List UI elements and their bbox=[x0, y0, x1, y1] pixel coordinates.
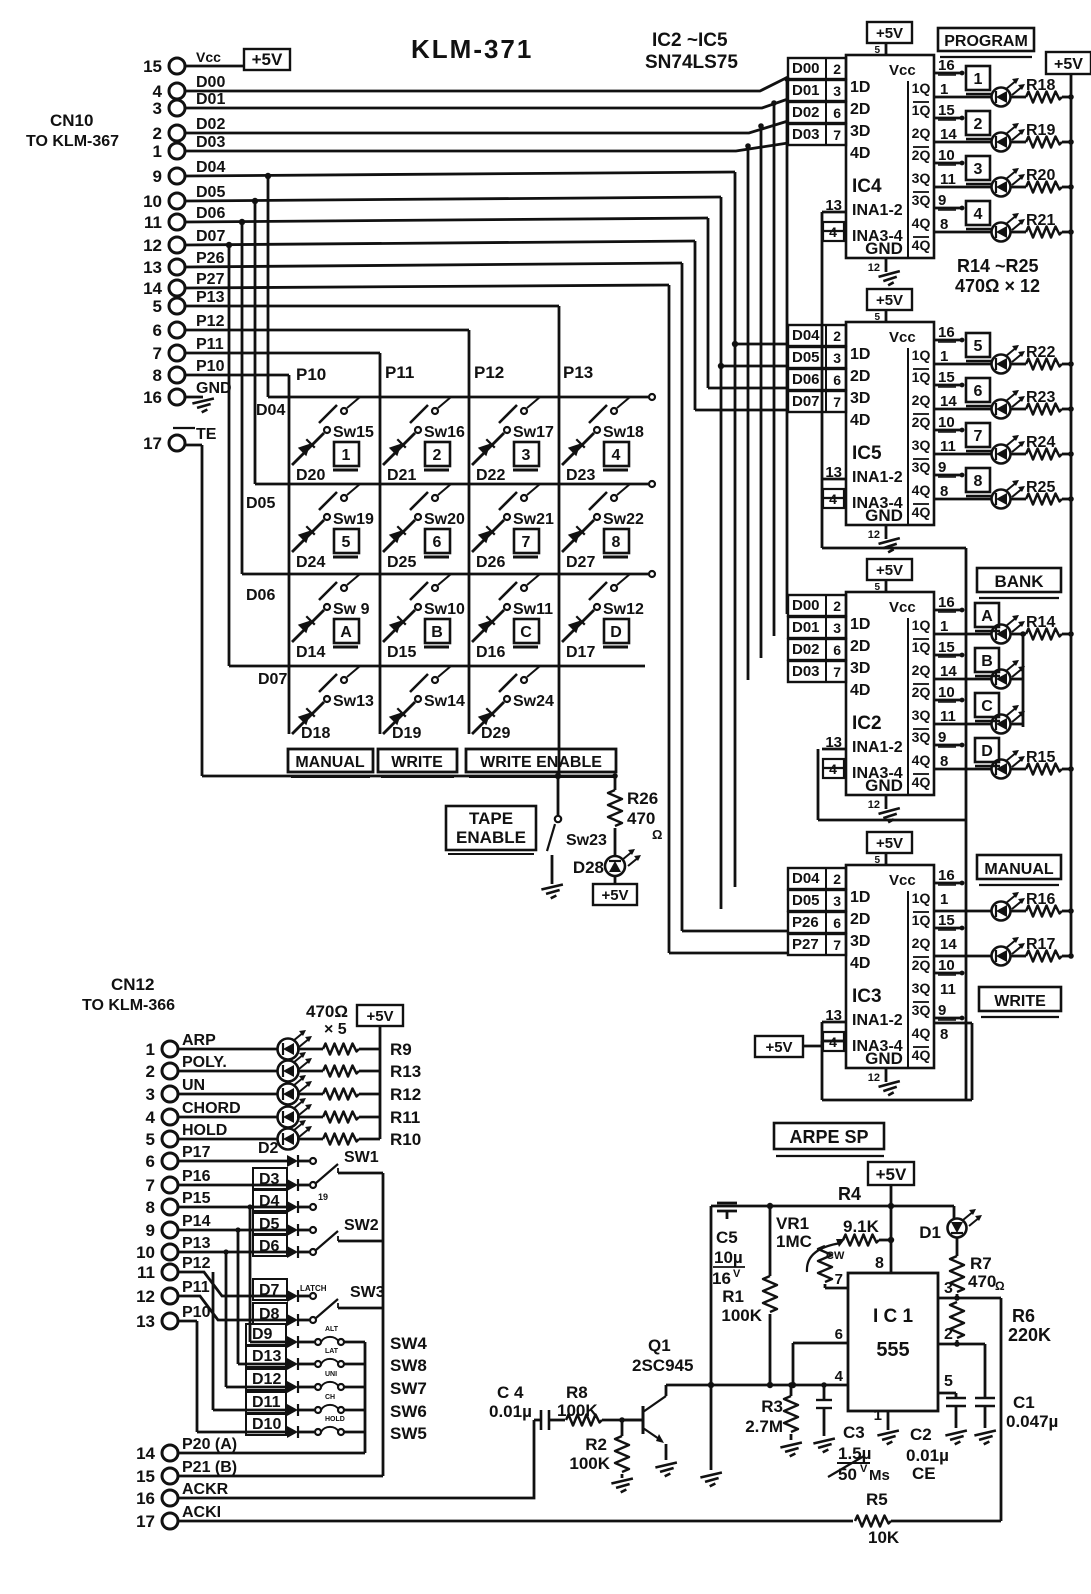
label SW23 bbox=[566, 832, 607, 849]
label R11 bbox=[390, 1108, 420, 1127]
svg-text:3Q: 3Q bbox=[912, 459, 931, 475]
pin 4 row bbox=[666, 1368, 848, 1388]
svg-text:Sw11: Sw11 bbox=[513, 601, 553, 618]
diode D9 bbox=[246, 1324, 314, 1348]
latch IC3 pin 10 stub bbox=[934, 957, 964, 975]
wire P12 bbox=[185, 330, 469, 734]
svg-text:1: 1 bbox=[940, 891, 948, 908]
latch IC5 pin 16 stub bbox=[934, 324, 964, 342]
latch IC5 output labels bbox=[912, 347, 931, 520]
svg-text:3D: 3D bbox=[850, 933, 870, 950]
CN10 pin 4 (D00) bbox=[153, 74, 226, 101]
svg-text:D11: D11 bbox=[252, 1394, 281, 1411]
svg-text:UN: UN bbox=[182, 1077, 205, 1094]
switch label Sw14 bbox=[424, 693, 465, 710]
svg-text:2.7M: 2.7M bbox=[745, 1417, 783, 1436]
svg-text:6: 6 bbox=[153, 321, 162, 340]
latch IC3 pin 11 label bbox=[940, 981, 956, 998]
svg-text:Sw10: Sw10 bbox=[424, 601, 465, 618]
svg-text:15: 15 bbox=[938, 639, 955, 656]
svg-text:7: 7 bbox=[974, 428, 983, 445]
key cap label D bbox=[603, 619, 629, 647]
svg-text:1D: 1D bbox=[850, 889, 870, 906]
svg-text:ALT: ALT bbox=[325, 1326, 339, 1333]
svg-text:4Q: 4Q bbox=[912, 1025, 931, 1041]
svg-text:P11: P11 bbox=[196, 336, 224, 353]
svg-text:10: 10 bbox=[938, 147, 955, 164]
svg-text:1: 1 bbox=[940, 348, 948, 365]
pin 7 row bbox=[835, 1271, 843, 1288]
+5V box (top right) bbox=[1046, 52, 1091, 74]
transistor Q1 bbox=[620, 1396, 666, 1460]
wire D01 bbox=[185, 99, 788, 636]
svg-text:D06: D06 bbox=[792, 371, 820, 388]
svg-text:D06: D06 bbox=[196, 205, 225, 222]
capacitor C1 bbox=[975, 1344, 995, 1428]
svg-text:2: 2 bbox=[833, 598, 841, 614]
svg-text:+5V: +5V bbox=[765, 1039, 792, 1056]
latch IC2 pin 11 label bbox=[940, 708, 956, 725]
label MANUAL (LED) bbox=[977, 855, 1061, 885]
svg-text:INA1-2: INA1-2 bbox=[852, 739, 903, 756]
svg-text:BANK: BANK bbox=[994, 572, 1044, 591]
svg-text:1: 1 bbox=[940, 81, 948, 98]
svg-text:P10: P10 bbox=[296, 365, 326, 384]
svg-text:B: B bbox=[431, 624, 443, 641]
svg-text:WRITE ENABLE: WRITE ENABLE bbox=[480, 754, 602, 771]
diode label D20 bbox=[296, 467, 325, 484]
svg-text:8: 8 bbox=[940, 216, 948, 233]
key cap label B bbox=[424, 619, 450, 647]
CN12 pin 13 (P10) bbox=[136, 1304, 210, 1331]
latch IC3 pin 8 label bbox=[940, 1026, 948, 1043]
latch IC3 pin 9 stub bbox=[934, 1002, 964, 1020]
label R21 bbox=[1026, 212, 1055, 229]
label BANK bbox=[977, 568, 1061, 598]
ground (Q1 emitter) bbox=[655, 1462, 678, 1477]
resistor R20 bbox=[1011, 182, 1074, 193]
svg-text:1Q: 1Q bbox=[912, 347, 931, 363]
label WRITE (matrix) bbox=[378, 749, 457, 777]
LED PROGRAM 3 bbox=[992, 168, 1026, 197]
svg-text:D10: D10 bbox=[252, 1416, 281, 1433]
key cap label 1 bbox=[333, 442, 359, 470]
svg-text:12: 12 bbox=[868, 262, 880, 274]
svg-text:D3: D3 bbox=[259, 1171, 280, 1188]
svg-text:R24: R24 bbox=[1026, 434, 1055, 451]
LED POLY. bbox=[278, 1052, 313, 1082]
svg-text:2: 2 bbox=[433, 447, 442, 464]
latch IC5 pin 9 stub bbox=[934, 459, 964, 477]
svg-text:P12: P12 bbox=[474, 363, 504, 382]
LED MANUAL bbox=[992, 892, 1026, 921]
svg-text:P20 (A): P20 (A) bbox=[182, 1436, 237, 1453]
svg-text:HOLD: HOLD bbox=[325, 1416, 345, 1423]
latch IC3 output labels bbox=[912, 890, 931, 1063]
svg-text:R21: R21 bbox=[1026, 212, 1055, 229]
wire PROGRAM 3 row bbox=[934, 186, 991, 189]
svg-text:R4: R4 bbox=[838, 1184, 861, 1204]
ground (R3) bbox=[780, 1442, 803, 1457]
svg-text:LATCH: LATCH bbox=[300, 1284, 327, 1293]
label Q1 2SC945 bbox=[632, 1336, 693, 1375]
+5V box (IC4) bbox=[867, 22, 912, 56]
label C5 10u 16V bbox=[712, 1228, 745, 1288]
wire P10 bbox=[185, 375, 289, 734]
svg-text:1: 1 bbox=[974, 71, 983, 88]
svg-text:3Q: 3Q bbox=[912, 192, 931, 208]
label WRITE (LED) bbox=[979, 987, 1061, 1017]
latch IC5 pin 13 INA1-2 bbox=[822, 464, 846, 481]
switch label Sw17 bbox=[513, 424, 554, 441]
label SW7 bbox=[390, 1379, 427, 1398]
label R2 100K bbox=[569, 1435, 610, 1473]
svg-text:100K: 100K bbox=[569, 1454, 610, 1473]
wire P27 bbox=[185, 285, 788, 953]
svg-text:D07: D07 bbox=[258, 671, 287, 688]
svg-text:1Q: 1Q bbox=[912, 639, 931, 655]
svg-text:10: 10 bbox=[938, 957, 955, 974]
latch IC2 pin 8 label bbox=[940, 753, 948, 770]
latch IC3 pin 1 label bbox=[940, 891, 948, 908]
wire P11 row bbox=[178, 1296, 287, 1320]
diode D6 bbox=[253, 1235, 309, 1258]
LED D1 bbox=[948, 1206, 983, 1238]
svg-text:1: 1 bbox=[342, 447, 351, 464]
wire Vcc to +5V bbox=[185, 65, 244, 68]
svg-text:R14: R14 bbox=[1026, 614, 1055, 631]
switch SW7 bbox=[315, 1371, 365, 1390]
ground (CN10 pin16) bbox=[192, 398, 215, 413]
svg-text:3: 3 bbox=[974, 161, 983, 178]
latch IC5 pin 8 label bbox=[940, 483, 948, 500]
label MANUAL (matrix) bbox=[288, 749, 373, 777]
svg-text:16: 16 bbox=[938, 57, 955, 74]
CN10 pin 12 (D07) bbox=[143, 228, 225, 255]
svg-text:2Q: 2Q bbox=[912, 392, 931, 408]
matrix row line D04 bbox=[268, 394, 655, 400]
wire IC2 enable loop bbox=[818, 749, 966, 820]
svg-text:3: 3 bbox=[153, 99, 162, 118]
svg-text:8: 8 bbox=[940, 1026, 948, 1043]
svg-text:D: D bbox=[981, 743, 993, 760]
svg-text:3Q: 3Q bbox=[912, 170, 931, 186]
svg-text:1Q: 1Q bbox=[912, 617, 931, 633]
latch IC2 body bbox=[846, 592, 934, 795]
capacitor C5 bbox=[717, 1203, 737, 1219]
svg-text:A: A bbox=[340, 624, 352, 641]
wire D13 branch bbox=[238, 1230, 287, 1364]
CN10 pin 16 (GND) bbox=[143, 380, 231, 407]
wire ACKR row bbox=[178, 1420, 534, 1498]
label VR1 1MC bbox=[776, 1214, 812, 1251]
CN10 pin 13 (P26) bbox=[143, 250, 224, 277]
svg-text:4Q: 4Q bbox=[912, 504, 931, 520]
svg-text:SW8: SW8 bbox=[390, 1356, 427, 1375]
svg-text:LAT: LAT bbox=[325, 1348, 339, 1355]
switch Sw12 with diode D17 bbox=[562, 574, 630, 642]
svg-text:16: 16 bbox=[712, 1269, 731, 1288]
svg-text:VR1: VR1 bbox=[776, 1214, 809, 1233]
svg-text:D02: D02 bbox=[196, 116, 225, 133]
svg-text:+5V: +5V bbox=[876, 562, 903, 579]
switch SW3 bbox=[310, 1293, 383, 1323]
svg-text:Ms: Ms bbox=[869, 1467, 890, 1484]
input flag D01 -> IC2 2D pin 3 bbox=[788, 617, 870, 655]
svg-text:3Q: 3Q bbox=[912, 437, 931, 453]
svg-text:D05: D05 bbox=[792, 349, 820, 366]
switch SW8 bbox=[315, 1348, 365, 1367]
input flag D05 -> IC3 2D pin 3 bbox=[788, 890, 870, 928]
label TO KLM-366 bbox=[82, 997, 175, 1014]
svg-text:D19: D19 bbox=[392, 725, 421, 742]
wire +5V bus bbox=[1070, 74, 1073, 957]
ground (IC5 pin 12) bbox=[868, 525, 902, 554]
wire PROGRAM 5 row bbox=[934, 363, 991, 366]
svg-text:SW5: SW5 bbox=[390, 1424, 427, 1443]
wire PROGRAM 6 row bbox=[934, 408, 991, 411]
resistor R22 bbox=[1011, 359, 1074, 370]
svg-text:12: 12 bbox=[868, 799, 880, 811]
wire BANK B to bank bus bbox=[1011, 678, 1023, 681]
wire UN row bbox=[178, 1093, 277, 1096]
resistor R25 bbox=[1011, 494, 1074, 505]
svg-text:470: 470 bbox=[627, 809, 655, 828]
svg-text:1D: 1D bbox=[850, 79, 870, 96]
key cap label 5 bbox=[333, 529, 359, 557]
svg-text:555: 555 bbox=[876, 1339, 909, 1361]
label SW6 bbox=[390, 1402, 427, 1421]
svg-text:D05: D05 bbox=[246, 495, 275, 512]
svg-text:+5V: +5V bbox=[366, 1008, 393, 1025]
indicator cap label 2 bbox=[966, 111, 991, 139]
LED BANK A bbox=[992, 615, 1026, 644]
wire CHORD row bbox=[178, 1116, 277, 1119]
svg-text:2Q: 2Q bbox=[912, 147, 931, 163]
svg-text:P27: P27 bbox=[196, 271, 225, 288]
input flag P27 -> IC3 4D pin 7 bbox=[788, 934, 870, 972]
diode label D29 bbox=[481, 725, 510, 742]
wire D28 to +5V bbox=[614, 876, 617, 884]
resistor R3 bbox=[784, 1382, 798, 1440]
ground (C5) bbox=[700, 1472, 723, 1487]
wire pin3 to R5 node bbox=[1000, 1298, 1003, 1521]
label R10 bbox=[390, 1130, 421, 1149]
svg-text:MANUAL: MANUAL bbox=[295, 754, 365, 771]
resistor R5 bbox=[855, 1516, 1001, 1527]
wire +5V to rail bbox=[890, 1185, 893, 1206]
resistor R2 bbox=[615, 1420, 629, 1478]
wire ACKI row bbox=[178, 1520, 853, 1523]
diode D2 bbox=[258, 1140, 309, 1167]
svg-text:R26: R26 bbox=[627, 789, 658, 808]
wire PROGRAM 8 row bbox=[934, 498, 991, 501]
svg-text:TO KLM-366: TO KLM-366 bbox=[82, 997, 175, 1014]
+5V box (CN12 LEDs) bbox=[357, 1005, 403, 1026]
latch IC4 body bbox=[846, 55, 934, 258]
svg-text:D12: D12 bbox=[252, 1371, 281, 1388]
LED CHORD bbox=[278, 1098, 313, 1128]
op-amp IC1 555 body bbox=[848, 1273, 938, 1411]
svg-text:GND: GND bbox=[865, 239, 903, 258]
svg-text:16: 16 bbox=[143, 388, 162, 407]
svg-text:SW7: SW7 bbox=[390, 1379, 427, 1398]
wire P13 row bbox=[178, 1249, 287, 1254]
wire PROGRAM 4 row bbox=[934, 231, 991, 234]
resistor R6 bbox=[950, 1302, 964, 1344]
switch label Sw12 bbox=[603, 601, 644, 618]
wire TE horizontal run bbox=[202, 775, 616, 778]
svg-text:3Q: 3Q bbox=[912, 729, 931, 745]
wire D10 branch bbox=[197, 1431, 287, 1434]
LED PROGRAM 6 bbox=[992, 390, 1026, 419]
svg-text:SW6: SW6 bbox=[390, 1402, 427, 1421]
svg-text:14: 14 bbox=[940, 393, 957, 410]
svg-text:3Q: 3Q bbox=[912, 707, 931, 723]
svg-text:CN10: CN10 bbox=[50, 111, 93, 130]
switch label Sw16 bbox=[424, 424, 465, 441]
resistor R11 bbox=[297, 1112, 380, 1123]
svg-text:1D: 1D bbox=[850, 346, 870, 363]
wire SW bus B bbox=[382, 1173, 385, 1476]
svg-text:4Q: 4Q bbox=[912, 482, 931, 498]
svg-text:1Q: 1Q bbox=[912, 369, 931, 385]
svg-text:2: 2 bbox=[833, 61, 841, 77]
svg-text:Vcc: Vcc bbox=[889, 599, 916, 616]
svg-text:R17: R17 bbox=[1026, 936, 1055, 953]
svg-text:INA1-2: INA1-2 bbox=[852, 469, 903, 486]
svg-text:1: 1 bbox=[153, 142, 162, 161]
CN10 pin 8 (P10) bbox=[153, 358, 225, 385]
svg-text:D25: D25 bbox=[387, 554, 416, 571]
svg-text:14: 14 bbox=[940, 663, 957, 680]
svg-text:4Q: 4Q bbox=[912, 1047, 931, 1063]
svg-text:5: 5 bbox=[153, 297, 162, 316]
svg-text:D07: D07 bbox=[792, 393, 820, 410]
svg-text:11: 11 bbox=[144, 213, 162, 232]
indicator cap label A bbox=[975, 603, 1000, 631]
label CW bbox=[826, 1250, 845, 1262]
indicator cap label 5 bbox=[966, 333, 991, 361]
svg-text:R10: R10 bbox=[390, 1130, 421, 1149]
svg-text:TAPE: TAPE bbox=[469, 809, 513, 828]
svg-text:+5V: +5V bbox=[876, 835, 903, 852]
svg-text:4Q: 4Q bbox=[912, 752, 931, 768]
wire D07 bbox=[185, 241, 788, 666]
svg-text:P13: P13 bbox=[182, 1235, 211, 1252]
label R17 bbox=[1026, 936, 1055, 953]
wire D06 bbox=[185, 218, 788, 574]
node D07 row label bbox=[258, 671, 287, 688]
svg-text:4Q: 4Q bbox=[912, 774, 931, 790]
label R18 bbox=[1026, 77, 1055, 94]
LED PROGRAM 4 bbox=[992, 213, 1026, 242]
svg-text:9: 9 bbox=[938, 1002, 946, 1019]
svg-text:Sw19: Sw19 bbox=[333, 511, 374, 528]
svg-text:13: 13 bbox=[136, 1312, 155, 1331]
label R7 470 bbox=[968, 1254, 1005, 1293]
svg-text:3Q: 3Q bbox=[912, 1002, 931, 1018]
latch IC2 pin 13 INA1-2 bbox=[822, 734, 846, 751]
resistor R14 bbox=[1011, 629, 1074, 640]
svg-text:6: 6 bbox=[974, 383, 983, 400]
svg-text:WRITE: WRITE bbox=[391, 754, 443, 771]
svg-text:D02: D02 bbox=[792, 641, 820, 658]
+5V box (D28) bbox=[593, 884, 637, 905]
svg-text:15: 15 bbox=[136, 1467, 155, 1486]
label SW4 bbox=[390, 1334, 427, 1353]
svg-text:Ω: Ω bbox=[652, 827, 662, 842]
svg-text:12: 12 bbox=[868, 529, 880, 541]
switch label Sw15 bbox=[333, 424, 374, 441]
wire POLY. row bbox=[178, 1070, 277, 1073]
resistor R13 bbox=[297, 1066, 380, 1077]
svg-text:0.01µ: 0.01µ bbox=[489, 1402, 532, 1421]
CN10 pin 14 (P27) bbox=[143, 271, 224, 298]
label CN10 bbox=[50, 111, 93, 130]
wire P13 bbox=[185, 306, 559, 776]
latch IC3 pin 13 INA1-2 bbox=[822, 1007, 846, 1024]
resistor R18 bbox=[1011, 92, 1074, 103]
indicator cap label D bbox=[975, 738, 1000, 766]
wire CN12 LED bus bbox=[379, 1026, 382, 1139]
CN12 pin 8 (P15) bbox=[146, 1190, 211, 1217]
diode label D22 bbox=[476, 467, 505, 484]
svg-text:8: 8 bbox=[153, 366, 162, 385]
label R14 bbox=[1026, 614, 1055, 631]
pin 6 row bbox=[790, 1326, 848, 1388]
svg-text:8: 8 bbox=[974, 473, 983, 490]
CN12 pin 2 (POLY.) bbox=[146, 1054, 227, 1081]
input flag D03 -> IC2 4D pin 7 bbox=[788, 661, 870, 699]
svg-text:10K: 10K bbox=[868, 1528, 900, 1547]
label R14~R25 470ohm x12 bbox=[955, 256, 1040, 296]
svg-text:8: 8 bbox=[940, 483, 948, 500]
input flag D04 -> IC3 1D pin 2 bbox=[788, 868, 870, 906]
resistor R16 bbox=[1011, 906, 1074, 917]
label R1 100K bbox=[721, 1287, 762, 1325]
svg-text:P27: P27 bbox=[792, 936, 819, 953]
wire P20(A) row bbox=[178, 1452, 365, 1455]
svg-text:1: 1 bbox=[874, 1407, 882, 1424]
svg-text:16: 16 bbox=[938, 324, 955, 341]
svg-text:9: 9 bbox=[938, 192, 946, 209]
CN12 pin 14 (P20 (A)) bbox=[136, 1436, 237, 1463]
latch IC5 pin 1 label bbox=[940, 348, 948, 365]
svg-text:7: 7 bbox=[835, 1271, 843, 1288]
label R23 bbox=[1026, 389, 1055, 406]
svg-text:D04: D04 bbox=[792, 870, 820, 887]
svg-text:+5V: +5V bbox=[876, 1165, 907, 1184]
svg-text:ACKI: ACKI bbox=[182, 1504, 221, 1521]
wire MANUAL row bbox=[934, 910, 991, 913]
svg-text:D14: D14 bbox=[296, 644, 325, 661]
svg-text:1Q: 1Q bbox=[912, 102, 931, 118]
label SW3 bbox=[300, 1284, 385, 1301]
svg-text:8: 8 bbox=[612, 534, 621, 551]
svg-text:Sw23: Sw23 bbox=[566, 832, 607, 849]
switch SW23 bbox=[547, 776, 561, 884]
svg-text:C3: C3 bbox=[843, 1423, 865, 1442]
svg-text:D05: D05 bbox=[792, 892, 820, 909]
label C1 0.047u bbox=[1006, 1393, 1058, 1431]
latch IC5 pin 10 stub bbox=[934, 414, 964, 432]
svg-text:D00: D00 bbox=[196, 74, 225, 91]
svg-text:SW1: SW1 bbox=[344, 1149, 379, 1166]
svg-text:15: 15 bbox=[938, 102, 955, 119]
svg-text:D04: D04 bbox=[196, 159, 225, 176]
svg-text:D01: D01 bbox=[792, 619, 820, 636]
